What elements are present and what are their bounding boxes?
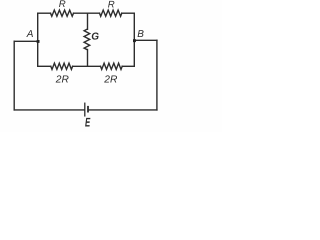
svg-text:A: A: [26, 29, 34, 40]
wire: bottom left to battery: [14, 109, 84, 111]
wire: top branch left segment: [38, 12, 51, 14]
wire: inner left vertical (node A riser): [37, 13, 39, 66]
svg-text:2R: 2R: [103, 75, 118, 86]
wire: inner right vertical (node B riser): [133, 13, 135, 66]
svg-text:R: R: [59, 0, 66, 10]
wire: outer left vertical: [13, 41, 15, 110]
svg-text:R: R: [108, 0, 115, 10]
wire: galvanometer branch bottom stub: [87, 50, 89, 67]
wire: top branch middle segment: [74, 12, 100, 14]
svg-text:B: B: [137, 29, 144, 40]
wire: top branch right segment: [122, 12, 135, 14]
wire: outer right vertical: [156, 40, 158, 110]
node B junction dot: [133, 39, 136, 42]
resistor R1 (top left): [51, 10, 74, 16]
wire: bottom branch middle segment: [73, 65, 101, 67]
wire: bottom branch right segment: [122, 65, 134, 67]
wire: galvanometer branch top stub: [87, 13, 89, 29]
battery E short thick plate: [87, 106, 89, 113]
galvanometer G (vertical resistor): [84, 29, 90, 49]
svg-text:G: G: [91, 32, 99, 43]
wire: battery to bottom right: [89, 109, 157, 111]
resistor R2 (top right): [100, 10, 122, 16]
resistor 2R (bottom left): [51, 63, 73, 69]
battery E long plate: [84, 103, 86, 116]
svg-text:E: E: [85, 116, 91, 130]
node A junction dot: [37, 40, 40, 43]
svg-text:2R: 2R: [55, 75, 70, 86]
wire: node B to outer right: [134, 39, 157, 41]
wire: bottom branch left segment: [38, 65, 51, 67]
resistor 2R (bottom right): [101, 63, 123, 69]
wire: node A to outer left: [14, 40, 38, 42]
